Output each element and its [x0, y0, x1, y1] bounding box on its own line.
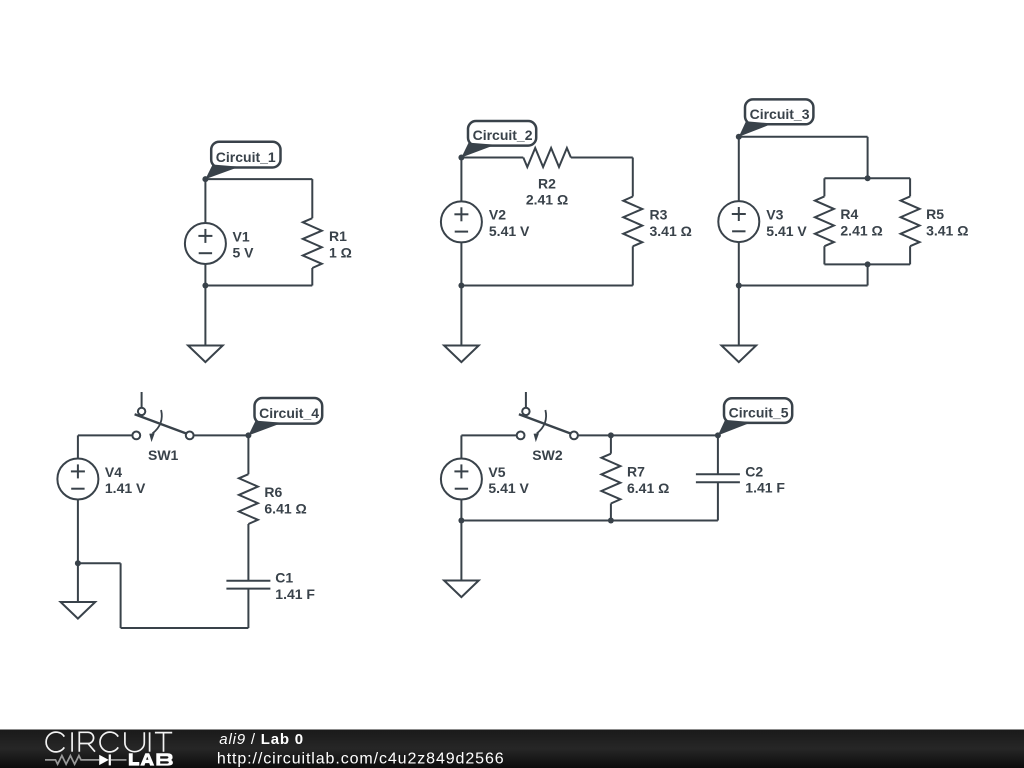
svg-text:6.41 Ω: 6.41 Ω [264, 500, 306, 516]
svg-text:5.41 V: 5.41 V [766, 223, 807, 239]
svg-text:R1: R1 [329, 228, 347, 244]
svg-text:3.41 Ω: 3.41 Ω [926, 223, 968, 239]
svg-text:R5: R5 [926, 206, 944, 222]
svg-text:Circuit_4: Circuit_4 [259, 405, 319, 421]
svg-text:5.41 V: 5.41 V [489, 223, 530, 239]
svg-text:V5: V5 [488, 464, 505, 480]
svg-text:Circuit_5: Circuit_5 [729, 404, 789, 420]
svg-text:V1: V1 [233, 228, 250, 244]
svg-text:5 V: 5 V [233, 245, 255, 261]
svg-text:1.41 F: 1.41 F [275, 586, 315, 602]
svg-text:ali9 / Lab 0: ali9 / Lab 0 [219, 731, 304, 748]
svg-text:R7: R7 [627, 464, 645, 480]
svg-text:6.41 Ω: 6.41 Ω [627, 480, 669, 496]
svg-text:SW1: SW1 [148, 447, 179, 463]
svg-text:V3: V3 [766, 206, 783, 222]
svg-text:V2: V2 [489, 207, 506, 223]
svg-text:1.41 F: 1.41 F [745, 480, 785, 496]
svg-text:V4: V4 [105, 464, 122, 480]
svg-text:C2: C2 [745, 463, 763, 479]
svg-text:R2: R2 [538, 175, 556, 191]
svg-text:R3: R3 [650, 207, 668, 223]
svg-text:R6: R6 [264, 484, 282, 500]
svg-text:Circuit_2: Circuit_2 [473, 127, 533, 143]
svg-text:SW2: SW2 [532, 447, 563, 463]
svg-text:5.41 V: 5.41 V [488, 480, 529, 496]
svg-text:Circuit_3: Circuit_3 [750, 106, 810, 122]
svg-text:1 Ω: 1 Ω [329, 244, 352, 260]
svg-text:Circuit_1: Circuit_1 [216, 149, 276, 165]
svg-text:1.41 V: 1.41 V [105, 480, 146, 496]
svg-text:2.41 Ω: 2.41 Ω [526, 192, 568, 208]
svg-text:http://circuitlab.com/c4u2z849: http://circuitlab.com/c4u2z849d2566 [217, 751, 505, 768]
svg-text:R4: R4 [840, 206, 858, 222]
svg-text:C1: C1 [275, 570, 293, 586]
svg-text:3.41 Ω: 3.41 Ω [650, 223, 692, 239]
svg-text:2.41 Ω: 2.41 Ω [840, 223, 882, 239]
